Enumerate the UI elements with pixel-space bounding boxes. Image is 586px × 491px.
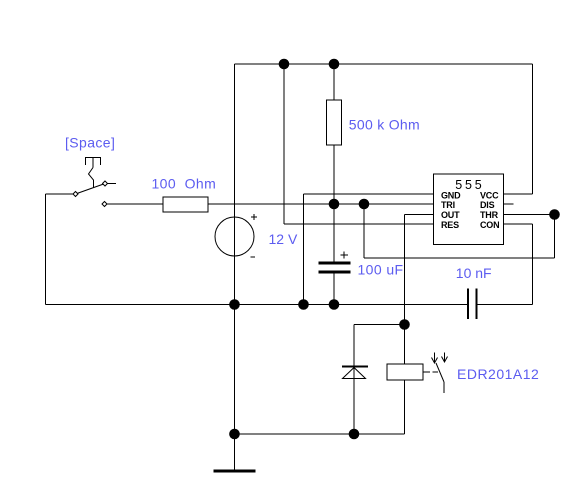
capacitor C2 10 nF left plate bbox=[467, 289, 469, 320]
resistor R2 500 k Ohm bbox=[327, 100, 342, 145]
wire C1 bottom lead bbox=[333, 274, 335, 305]
junction dot bottom rail / GND drop bbox=[298, 299, 309, 310]
wire THR link drop bbox=[554, 215, 556, 259]
capacitor C1 100 uF top plate bbox=[319, 262, 351, 265]
junction dot top rail / RES riser bbox=[279, 59, 290, 70]
wire relay coil bottom lead bbox=[404, 380, 406, 434]
diode D1 triangle bbox=[343, 368, 366, 379]
wire diode top link bbox=[354, 324, 405, 326]
relay K1 mechanical link dashes bbox=[423, 371, 438, 373]
wire switch common lead bbox=[46, 193, 74, 195]
wire C2 to CON corner bbox=[478, 304, 533, 306]
junction dot top rail / R2 bbox=[329, 59, 340, 70]
capacitor C2 10 nF right plate bbox=[476, 289, 478, 320]
wire top rail VCC bbox=[235, 63, 533, 65]
wire switch to resistor R1 bbox=[107, 203, 163, 205]
battery V1 12 V circle bbox=[215, 217, 254, 256]
svg-text:CON: CON bbox=[480, 220, 499, 230]
wire CON pin line bbox=[504, 223, 533, 225]
wire R2 top lead bbox=[333, 64, 335, 100]
relay K1 coil bbox=[387, 364, 423, 380]
switch S1 blade bbox=[76, 184, 106, 195]
switch S1 left contact terminal bbox=[73, 192, 78, 197]
junction dot TRI / THR link bbox=[359, 199, 370, 210]
svg-text:RES: RES bbox=[441, 220, 459, 230]
junction dot ground / relay rail bbox=[229, 429, 240, 440]
switch S1 lower contact terminal bbox=[102, 202, 107, 207]
wire left drop from switch bbox=[45, 194, 47, 305]
svg-text:EDR201A12: EDR201A12 bbox=[457, 366, 539, 382]
wire bottom ground rail bbox=[46, 304, 468, 306]
wire THR pin line bbox=[504, 214, 555, 216]
junction dot bottom rail / battery bbox=[229, 299, 240, 310]
relay K1 contact arrow 1 bbox=[432, 353, 438, 364]
wire THR link horizontal bbox=[364, 257, 555, 259]
junction dot TRI / R2 / C1 bbox=[329, 199, 340, 210]
switch S1 spring zigzag bbox=[89, 168, 94, 189]
capacitor C1 100 uF bottom plate bbox=[319, 271, 351, 274]
svg-text:100 Ohm: 100 Ohm bbox=[152, 176, 217, 192]
junction dot bottom rail / C1 bbox=[329, 299, 340, 310]
battery V1 plus sign bbox=[251, 214, 257, 220]
wire GND pin line bbox=[304, 193, 434, 195]
wire TRI link drop bbox=[363, 204, 365, 258]
svg-text:TRI: TRI bbox=[441, 200, 455, 210]
capacitor C1 polarity plus bbox=[341, 252, 349, 259]
wire diode top lead bbox=[353, 325, 355, 435]
svg-text:12 V: 12 V bbox=[269, 231, 298, 247]
relay K1 contact blade bbox=[436, 363, 444, 393]
svg-text:500 k Ohm: 500 k Ohm bbox=[349, 117, 420, 133]
svg-text:THR: THR bbox=[480, 210, 499, 220]
wire relay coil top lead bbox=[404, 325, 406, 365]
battery V1 minus sign bbox=[251, 256, 256, 258]
diode D1 cathode bar bbox=[342, 366, 368, 368]
wire RES pin line bbox=[284, 223, 434, 225]
ground symbol bbox=[214, 470, 256, 473]
wire RES riser to rail bbox=[283, 64, 285, 224]
relay K1 contact arrow 2 bbox=[442, 353, 448, 363]
wire OUT drop to relay bbox=[404, 215, 406, 325]
wire TRI line bbox=[208, 203, 434, 205]
junction dot THR pin bbox=[549, 209, 560, 220]
wire relay bottom rail bbox=[235, 433, 405, 435]
wire C1 top lead bbox=[333, 204, 335, 262]
svg-text:DIS: DIS bbox=[480, 200, 495, 210]
wire ground drop bbox=[234, 305, 236, 470]
svg-text:100 uF: 100 uF bbox=[358, 262, 404, 278]
wire OUT pin line bbox=[405, 214, 434, 216]
junction dot relay rail / diode bbox=[349, 429, 360, 440]
svg-text:GND: GND bbox=[441, 190, 461, 200]
junction dot OUT / relay / diode bbox=[399, 319, 410, 330]
switch S1 pushbutton actuator bracket bbox=[86, 157, 101, 168]
switch S1 upper contact terminal bbox=[103, 181, 108, 186]
svg-text:OUT: OUT bbox=[441, 210, 460, 220]
switch S1 upper contact stub bbox=[108, 183, 117, 185]
wire R2 bottom lead bbox=[333, 145, 335, 204]
wire VCC pin line bbox=[504, 193, 533, 195]
svg-text:[Space]: [Space] bbox=[65, 135, 115, 151]
wire GND drop bbox=[303, 194, 305, 305]
svg-text:VCC: VCC bbox=[480, 190, 499, 200]
resistor R1 100 Ohm bbox=[163, 197, 208, 212]
wire VCC riser to rail bbox=[532, 64, 534, 194]
wire DIS stub bbox=[504, 203, 514, 205]
svg-text:10 nF: 10 nF bbox=[456, 265, 492, 281]
wire 12V branch vertical bbox=[234, 64, 236, 305]
wire CON drop bbox=[532, 224, 534, 305]
ic U1 555 body bbox=[434, 174, 504, 245]
